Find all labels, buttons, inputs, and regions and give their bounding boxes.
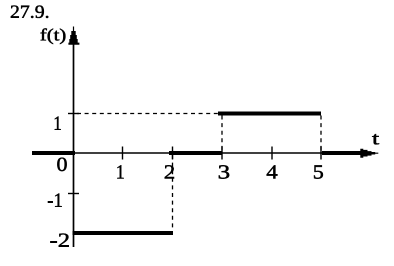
x-axis arrowhead: [360, 149, 378, 158]
svg-text:27.9.: 27.9.: [10, 3, 50, 23]
svg-text:f(t): f(t): [40, 25, 67, 44]
dashed vertical line t=2: [172, 155, 174, 231]
dashed vertical line t=5: [320, 116, 322, 153]
x-axis: [74, 152, 363, 154]
svg-text:-2: -2: [50, 230, 71, 252]
svg-text:1: 1: [53, 113, 62, 135]
y-axis arrowhead: [68, 27, 79, 45]
function segment f=0 for t<0: [32, 151, 75, 155]
dashed vertical line t=3: [221, 116, 223, 153]
tick t=5: [320, 147, 322, 160]
tick t=2: [172, 147, 174, 160]
dashed horizontal line y=1: [77, 113, 218, 115]
tick y=1: [68, 113, 79, 115]
function segment f=0 for 2<t<3: [169, 151, 222, 155]
tick t=3: [221, 147, 223, 160]
svg-text:2: 2: [164, 161, 176, 183]
tick t=1: [122, 147, 124, 160]
svg-text:5: 5: [313, 162, 324, 184]
function segment f=0 for t>5 (into arrow): [322, 151, 361, 155]
svg-text:4: 4: [266, 162, 278, 184]
svg-text:-1: -1: [47, 190, 63, 212]
function segment f=1 for 3<t<5: [218, 112, 321, 116]
function segment f=-2 for 0<t<2: [73, 231, 174, 235]
tick t=4: [271, 147, 273, 160]
svg-text:3: 3: [218, 162, 231, 184]
svg-text:0: 0: [56, 154, 67, 176]
svg-text:t: t: [372, 128, 379, 148]
y-axis: [73, 40, 75, 247]
tick y=-1: [68, 193, 79, 195]
svg-text:1: 1: [116, 161, 125, 183]
